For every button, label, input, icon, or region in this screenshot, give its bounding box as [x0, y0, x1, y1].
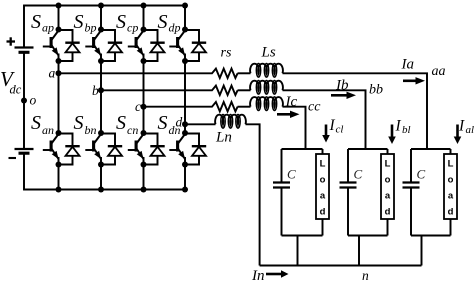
- transistor S_bp (IGBT): [85, 31, 101, 62]
- svg-text:cc: cc: [308, 100, 321, 115]
- svg-text:S: S: [31, 112, 41, 134]
- transistor S_cp (IGBT): [128, 31, 144, 62]
- svg-text:o: o: [320, 175, 326, 186]
- diode D_cp (antiparallel): [144, 30, 165, 61]
- wire load cell (phase a) bottom and drop to neutral bus: [411, 236, 451, 266]
- diode D_bn (antiparallel): [101, 134, 122, 165]
- wire load cell (phase c) bottom and drop to neutral bus: [282, 236, 323, 266]
- wire load cell (phase b) top: [348, 148, 388, 150]
- svg-text:b: b: [92, 83, 99, 98]
- arrow I_al current: [456, 125, 459, 137]
- svg-text:bb: bb: [369, 83, 383, 98]
- svg-text:ap: ap: [42, 21, 54, 35]
- svg-text:S: S: [158, 112, 168, 134]
- diode D_dp (antiparallel): [185, 30, 206, 61]
- arrow I_bl current: [391, 125, 394, 137]
- svg-text:C: C: [287, 167, 296, 182]
- junction dot S_dp emitter: [182, 58, 188, 64]
- wire leg a: top bus to S_ap collector: [58, 6, 60, 30]
- wire phase b: Ls to node bb and drop to load cell: [283, 90, 366, 149]
- svg-text:cp: cp: [127, 21, 138, 35]
- wire left DC rail upper segment: [23, 5, 25, 48]
- wire phase a: Ls to node aa and drop to load cell: [283, 73, 428, 149]
- svg-text:c: c: [135, 99, 141, 114]
- transistor S_ap (IGBT): [43, 31, 59, 62]
- arrow Ia current: [403, 80, 416, 83]
- svg-text:I: I: [458, 118, 465, 135]
- junction dot bottom bus leg d: [182, 187, 188, 193]
- junction dot S_cp emitter: [141, 58, 147, 64]
- wire leg c: top bus to S_cp collector: [143, 6, 145, 30]
- arrow Ib current: [331, 94, 347, 97]
- transistor S_cn (IGBT): [128, 134, 144, 165]
- svg-text:Ln: Ln: [215, 130, 232, 146]
- capacitor C (phase a): [410, 149, 412, 183]
- node b: [98, 87, 104, 93]
- transistor S_dp (IGBT): [169, 31, 185, 62]
- diode D_cn (antiparallel): [144, 134, 165, 165]
- svg-text:dc: dc: [10, 83, 22, 97]
- svg-text:S: S: [74, 112, 84, 134]
- battery V1 positive plate: [15, 46, 34, 48]
- junction dot bottom bus leg c: [141, 187, 147, 193]
- wire left DC rail lower segment: [23, 153, 25, 190]
- arrow I_cl current: [325, 125, 328, 136]
- junction dot S_an collector: [56, 130, 62, 136]
- wire leg a: S_an emitter to bottom bus: [58, 165, 60, 190]
- svg-text:rs: rs: [221, 46, 232, 61]
- svg-text:bl: bl: [402, 124, 411, 136]
- transistor S_an (IGBT): [43, 134, 59, 165]
- node o: [21, 98, 27, 104]
- svg-text:In: In: [251, 268, 265, 284]
- svg-text:n: n: [362, 268, 369, 283]
- svg-text:d: d: [320, 207, 326, 218]
- resistor rs (phase a): [210, 69, 238, 78]
- svg-text:o: o: [385, 175, 391, 186]
- wire leg b: S_bp emitter to S_bn collector: [100, 61, 102, 133]
- svg-text:d: d: [385, 207, 391, 218]
- label + (positive terminal): [7, 40, 16, 42]
- wire load cell (phase b) bottom and drop to neutral bus: [348, 236, 388, 266]
- wire leg c: S_cn emitter to bottom bus: [143, 165, 145, 190]
- battery V2 negative plate: [19, 152, 30, 155]
- arrow Ic current: [277, 113, 290, 116]
- junction dot S_an emitter: [56, 162, 62, 168]
- label − (negative terminal): [9, 157, 17, 159]
- svg-text:S: S: [116, 11, 126, 33]
- wire phase b: node b to rs: [101, 89, 210, 91]
- wire leg a: S_ap emitter to S_an collector: [58, 61, 60, 133]
- svg-text:cl: cl: [336, 124, 344, 136]
- junction dot top bus leg b: [98, 3, 104, 9]
- svg-text:L: L: [320, 159, 326, 170]
- arrow In current: [266, 273, 281, 276]
- wire leg d: S_dn emitter to bottom bus: [184, 165, 186, 190]
- diode D_an (antiparallel): [59, 134, 80, 165]
- junction dot S_ap collector: [56, 27, 62, 33]
- junction dot S_dn collector: [182, 130, 188, 136]
- resistor rs (phase c): [210, 102, 238, 111]
- junction dot bottom bus leg a: [56, 187, 62, 193]
- svg-text:S: S: [158, 11, 168, 33]
- junction dot S_cp collector: [141, 27, 147, 33]
- svg-text:I: I: [395, 118, 402, 135]
- wire phase c: rs to Ls: [238, 106, 251, 108]
- node a: [56, 70, 62, 76]
- wire leg d: S_dp emitter to S_dn collector: [184, 61, 186, 133]
- load box (phase a): [450, 149, 452, 154]
- svg-text:S: S: [116, 112, 126, 134]
- capacitor C (phase c): [281, 149, 283, 183]
- junction dot S_bp emitter: [98, 58, 104, 64]
- resistor rs (phase b): [210, 86, 238, 95]
- junction dot S_bn collector: [98, 130, 104, 136]
- svg-text:Ia: Ia: [401, 57, 415, 73]
- svg-text:S: S: [74, 11, 84, 33]
- svg-text:d: d: [176, 114, 183, 129]
- inductor Ls (phase b): [250, 81, 283, 95]
- wire top DC bus: [24, 5, 185, 7]
- svg-text:aa: aa: [432, 64, 446, 79]
- wire phase b: rs to Ls: [238, 89, 251, 91]
- battery V1 negative plate: [19, 51, 30, 54]
- svg-text:Ls: Ls: [261, 45, 276, 61]
- diode D_bp (antiparallel): [101, 30, 122, 61]
- svg-text:a: a: [49, 65, 56, 80]
- transistor S_bn (IGBT): [85, 134, 101, 165]
- wire leg b: S_bn emitter to bottom bus: [100, 165, 102, 190]
- junction dot S_cn collector: [141, 130, 147, 136]
- transistor S_dn (IGBT): [169, 134, 185, 165]
- svg-text:L: L: [448, 159, 454, 170]
- junction dot S_bp collector: [98, 27, 104, 33]
- junction dot S_dp collector: [182, 27, 188, 33]
- junction dot S_ap emitter: [56, 58, 62, 64]
- svg-text:L: L: [385, 159, 391, 170]
- junction dot S_cn emitter: [141, 162, 147, 168]
- svg-text:cn: cn: [127, 123, 138, 137]
- wire load cell (phase c) top: [282, 148, 323, 150]
- wire phase c: Ls to node cc and drop to load cell: [283, 107, 306, 149]
- inductor Ls (phase c): [250, 97, 283, 111]
- wire neutral: Ln to bus n: [246, 124, 260, 265]
- wire phase d: node d to Ln: [185, 123, 216, 125]
- wire leg d: top bus to S_dp collector: [184, 6, 186, 30]
- svg-text:o: o: [30, 93, 37, 108]
- svg-text:d: d: [448, 207, 454, 218]
- svg-text:a: a: [448, 191, 454, 202]
- wire leg c: S_cp emitter to S_cn collector: [143, 61, 145, 133]
- wire left DC rail middle segment: [23, 52, 25, 149]
- battery V2 positive plate: [15, 148, 34, 150]
- wire phase c: node c to rs: [144, 106, 210, 108]
- wire bottom DC bus: [24, 189, 185, 191]
- svg-text:a: a: [385, 191, 391, 202]
- svg-text:Ic: Ic: [285, 94, 298, 110]
- load box (phase c): [322, 149, 324, 154]
- svg-text:dp: dp: [169, 21, 181, 35]
- wire neutral bus n: [260, 265, 422, 267]
- diode D_dn (antiparallel): [185, 134, 206, 165]
- junction dot S_dn emitter: [182, 162, 188, 168]
- svg-text:bp: bp: [85, 21, 97, 35]
- junction dot S_bn emitter: [98, 162, 104, 168]
- inductor Ls (phase a): [250, 64, 283, 78]
- diode D_ap (antiparallel): [59, 30, 80, 61]
- junction dot top bus leg c: [141, 3, 147, 9]
- svg-text:bn: bn: [85, 123, 97, 137]
- wire leg b: top bus to S_bp collector: [100, 6, 102, 30]
- svg-text:C: C: [417, 167, 426, 182]
- svg-text:an: an: [42, 123, 54, 137]
- svg-text:I: I: [329, 117, 336, 134]
- svg-text:Ib: Ib: [335, 77, 349, 93]
- junction dot top bus leg a: [56, 3, 62, 9]
- node d: [182, 121, 188, 127]
- wire phase a: node a to rs: [59, 72, 210, 74]
- junction dot top bus leg d: [182, 3, 188, 9]
- svg-text:S: S: [31, 11, 41, 33]
- svg-text:C: C: [354, 167, 363, 182]
- capacitor C (phase b): [347, 149, 349, 183]
- inductor Ln: [215, 115, 246, 129]
- svg-text:al: al: [466, 124, 474, 136]
- node c: [141, 104, 147, 110]
- wire load cell (phase a) top: [411, 148, 451, 150]
- load box (phase b): [387, 149, 389, 154]
- wire phase a: rs to Ls: [238, 72, 251, 74]
- junction dot bottom bus leg b: [98, 187, 104, 193]
- svg-text:a: a: [320, 191, 326, 202]
- svg-text:o: o: [448, 175, 454, 186]
